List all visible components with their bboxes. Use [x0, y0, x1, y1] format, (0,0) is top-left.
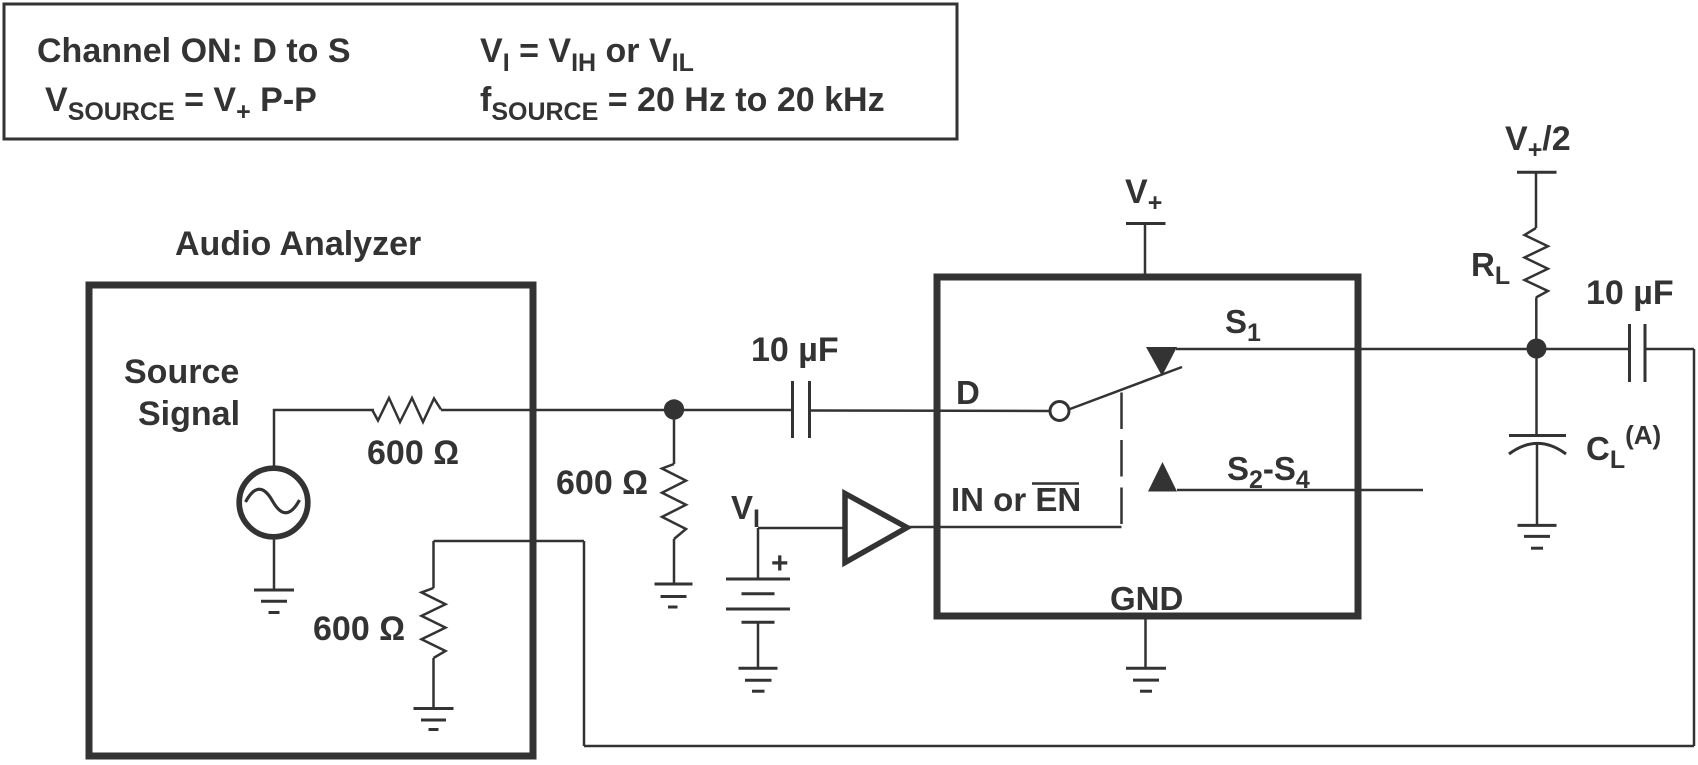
svg-text:VI = VIH or VIL: VI = VIH or VIL [480, 32, 694, 77]
DUT switch box [937, 277, 1358, 616]
EN overline [1032, 482, 1079, 485]
wire source top [274, 410, 374, 468]
svg-text:10 µF: 10 µF [1586, 274, 1674, 312]
wire output cap to right edge [1645, 348, 1694, 351]
ground source [254, 590, 294, 613]
svg-text:Audio Analyzer: Audio Analyzer [175, 225, 421, 263]
svg-text:VI: VI [731, 489, 760, 533]
svg-text:fSOURCE = 20 Hz to 20 kHz: fSOURCE = 20 Hz to 20 kHz [480, 81, 885, 126]
resistor RL [1525, 228, 1548, 298]
battery VI [726, 579, 790, 622]
wire GND stub [1144, 616, 1147, 669]
V+ terminal bar [1126, 222, 1166, 225]
capacitor CL [1509, 436, 1566, 455]
ground mid shunt [655, 584, 693, 607]
switch throw S2-S4 contact triangle [1148, 462, 1177, 492]
capacitor 10uF output [1630, 324, 1646, 382]
wire cap to D [810, 409, 1051, 412]
wire S2-S4 output [1177, 489, 1423, 492]
svg-text:S2-S4: S2-S4 [1227, 450, 1310, 494]
conditions box [4, 4, 957, 139]
source VSOURCE sine generator [239, 468, 308, 537]
wire tap inside analyzer [434, 540, 585, 543]
svg-text:Source: Source [124, 353, 239, 391]
wire V+/2 to RL [1535, 172, 1538, 228]
wire RL to node B [1535, 298, 1538, 350]
dashed link switch to IN [1120, 393, 1123, 528]
svg-text:+: + [771, 547, 789, 580]
switch throw S1 contact triangle [1146, 347, 1177, 376]
svg-text:RL: RL [1471, 246, 1510, 290]
svg-text:S1: S1 [1225, 303, 1261, 347]
switch pole circle [1050, 402, 1069, 421]
ground battery [739, 668, 778, 691]
wire node B to CL [1535, 349, 1538, 435]
capacitor 10uF input [793, 381, 810, 438]
svg-text:V+: V+ [1125, 173, 1162, 217]
resistor 600ohm analyzer shunt [422, 541, 446, 708]
resistor 600ohm mid shunt [662, 410, 686, 584]
resistor 600ohm series [372, 398, 441, 422]
wire VI to battery [757, 528, 760, 579]
switch arm [1070, 367, 1182, 409]
wire VI to buffer [758, 527, 844, 530]
wire return left vertical [583, 541, 586, 746]
svg-text:10 µF: 10 µF [751, 331, 839, 369]
svg-text:GND: GND [1110, 580, 1183, 617]
wire V+ to box [1144, 224, 1147, 278]
buffer driver triangle [845, 494, 907, 563]
wire battery to ground [757, 622, 760, 668]
svg-text:600 Ω: 600 Ω [556, 464, 648, 502]
wire CL to ground [1536, 444, 1539, 525]
wire return right vertical [1693, 349, 1696, 746]
ground analyzer shunt [414, 709, 454, 730]
svg-text:D: D [956, 374, 980, 411]
V+/2 terminal bar [1517, 171, 1557, 174]
svg-text:600 Ω: 600 Ω [313, 610, 405, 648]
node A junction dot [664, 399, 684, 419]
Audio Analyzer box [89, 285, 533, 756]
svg-text:Signal: Signal [138, 395, 240, 433]
node B junction dot [1527, 339, 1547, 359]
wire buffer to IN [907, 526, 1122, 529]
svg-text:VSOURCE = V+ P-P: VSOURCE = V+ P-P [45, 81, 317, 126]
svg-text:600 Ω: 600 Ω [367, 434, 459, 472]
wire return bottom [584, 745, 1694, 748]
wire source to node A [441, 409, 792, 412]
ground CL [1518, 525, 1557, 548]
ground GND [1126, 668, 1166, 691]
svg-text:V+/2: V+/2 [1505, 120, 1571, 164]
svg-text:CL(A): CL(A) [1586, 420, 1661, 474]
svg-text:IN or EN: IN or EN [951, 481, 1081, 518]
wire S1 output [1176, 348, 1630, 351]
wire source bottom to ground [273, 537, 276, 590]
svg-text:Channel ON: D to S: Channel ON: D to S [37, 32, 351, 70]
